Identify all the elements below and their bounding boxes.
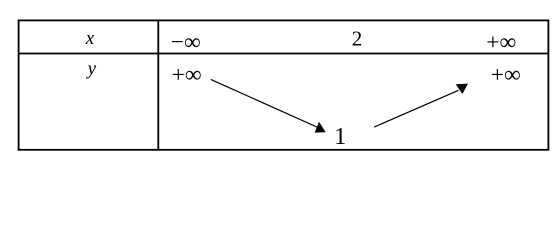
increasing arrow shaft (374, 90, 458, 127)
table outer border (19, 20, 549, 149)
decreasing arrow shaft (211, 79, 318, 127)
svg-text:1: 1 (334, 124, 346, 150)
svg-text:+∞: +∞ (486, 30, 516, 56)
svg-text:y: y (86, 58, 97, 79)
decreasing arrow head (315, 122, 326, 133)
svg-text:+∞: +∞ (172, 62, 202, 88)
increasing arrow head (456, 84, 468, 94)
table column divider (157, 20, 159, 149)
svg-text:+∞: +∞ (491, 62, 521, 88)
svg-text:x: x (85, 28, 95, 49)
table row divider (19, 53, 549, 55)
svg-text:−∞: −∞ (171, 30, 201, 56)
svg-text:2: 2 (352, 26, 363, 50)
